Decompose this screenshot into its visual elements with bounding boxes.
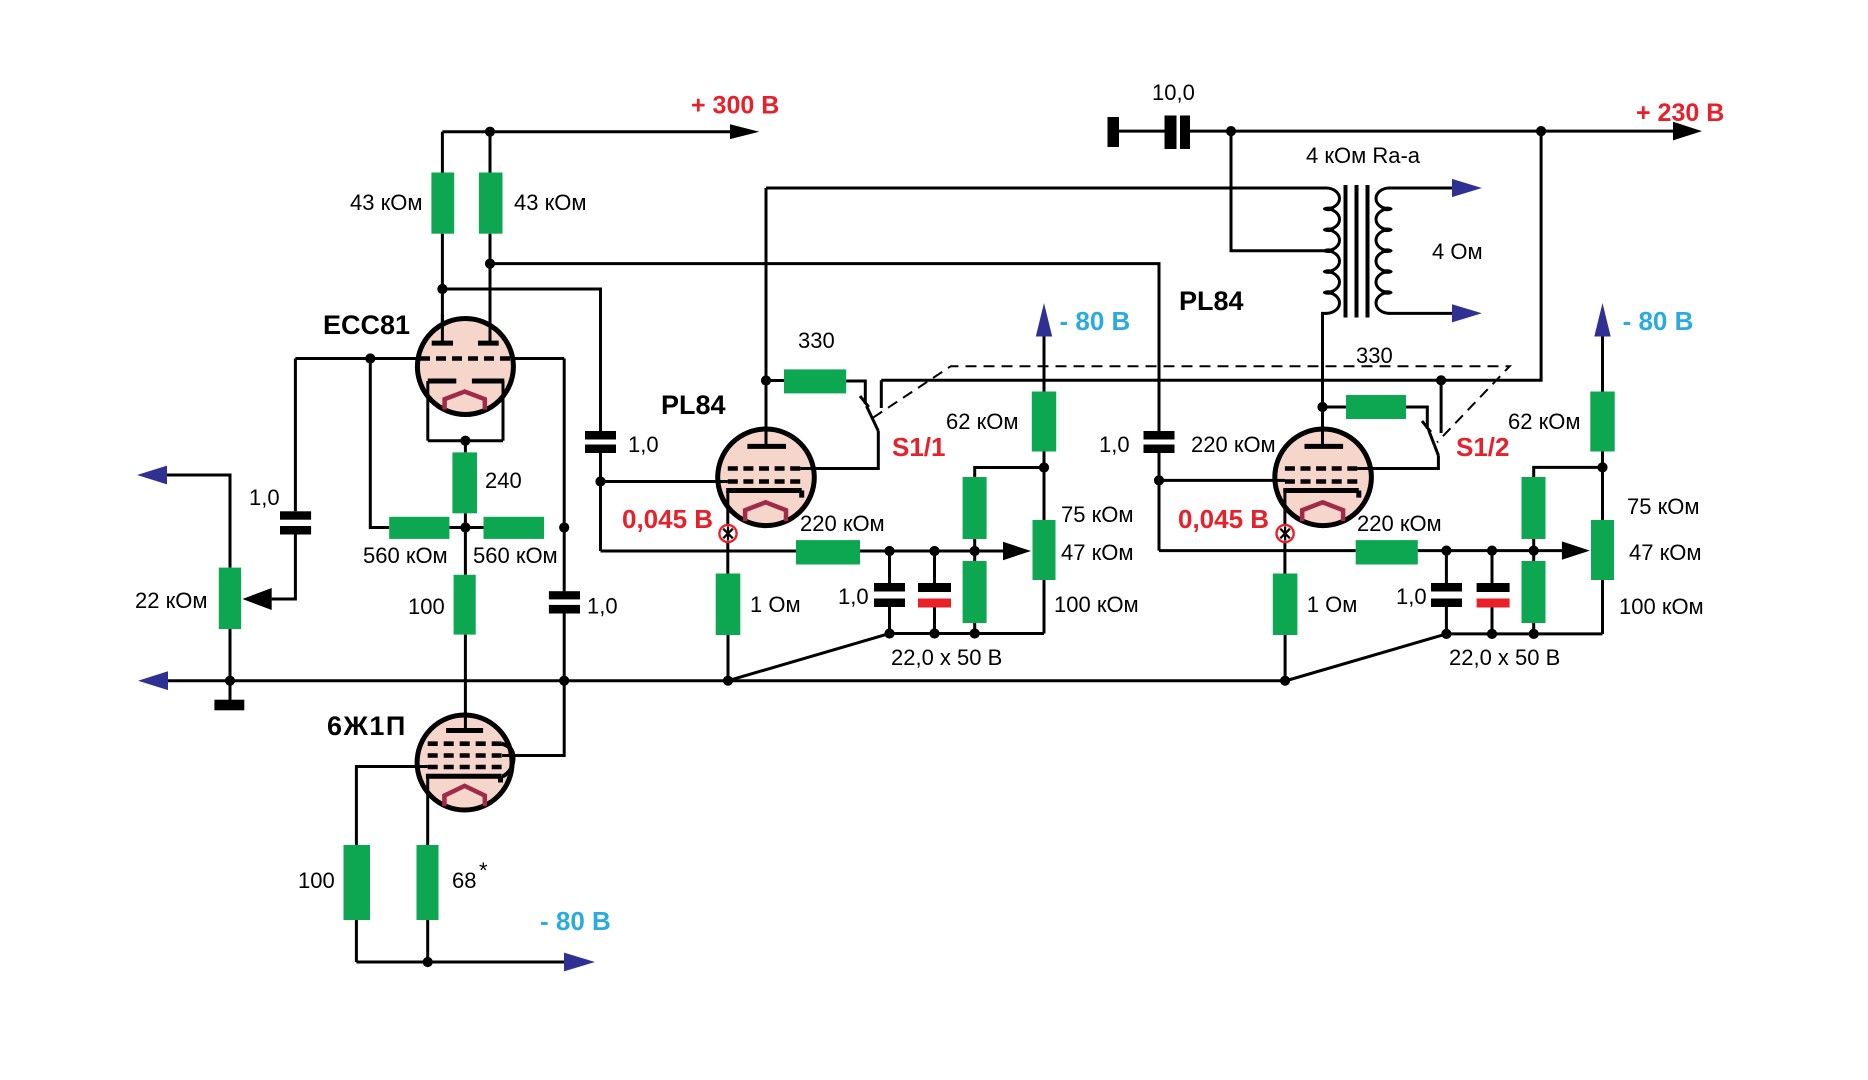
wire -80V bottom rail bbox=[356, 961, 564, 964]
anode plate bar right triode bbox=[478, 341, 499, 346]
wire diagonal bank rail to ground left bbox=[728, 634, 890, 681]
measurement point marker right bbox=[1277, 525, 1294, 542]
wire 68 bottom to -80V rail bbox=[426, 920, 429, 962]
resistor 330 (left) bbox=[784, 369, 846, 393]
node 560k right junction bbox=[559, 522, 569, 532]
capacitor 1,0 (right cathode bank) bbox=[1431, 583, 1462, 592]
transformer secondary winding bbox=[1376, 188, 1390, 313]
svg-text:100: 100 bbox=[408, 594, 445, 619]
node 62k/47k junction left bbox=[1039, 462, 1049, 472]
wire 220k to bias divider bbox=[860, 550, 1004, 553]
transformer primary winding bbox=[1326, 188, 1340, 313]
wire 100 bottom down to 6Ж1П anode (crosses ground rail) bbox=[464, 635, 467, 731]
wire 62k bottom lead left bbox=[1043, 452, 1046, 468]
arrowhead ground rail (left) bbox=[138, 671, 168, 690]
capacitor 1,0 (right coupling) bbox=[1144, 431, 1175, 440]
wire 43k left bottom to ECC81 anode bbox=[441, 234, 444, 345]
resistor 220 кОм (right grid leak) bbox=[1356, 540, 1418, 564]
node bias line / 1,0 cap left bbox=[884, 546, 894, 556]
tube ECC81 envelope bbox=[417, 319, 513, 415]
S1/1 switch blade bbox=[867, 406, 879, 431]
grid dashes control row PL84 left bbox=[728, 479, 800, 484]
capacitor 1,0 (left cathode bank) bbox=[874, 583, 905, 592]
svg-text:4 Ом: 4 Ом bbox=[1432, 239, 1483, 264]
measurement point marker left bbox=[719, 525, 736, 542]
node grid-left feedback tap bbox=[365, 353, 375, 363]
resistor 220 кОм (left grid leak) bbox=[796, 540, 860, 564]
svg-text:1,0: 1,0 bbox=[838, 584, 869, 609]
wire cathode join bar bbox=[428, 439, 503, 442]
node anode / 330 tap right bbox=[1317, 402, 1327, 412]
svg-text:10,0: 10,0 bbox=[1152, 80, 1195, 105]
grid dashes screen row PL84 right bbox=[1285, 466, 1357, 471]
node bias line / 1,0 cap right bbox=[1441, 546, 1451, 556]
capacitor 22,0x50В electrolytic left bbox=[918, 583, 951, 592]
wire main ground rail bbox=[168, 679, 1285, 682]
ground symbol bar bbox=[214, 700, 244, 711]
heater PL84 left bbox=[745, 502, 786, 521]
wire center tap feed bbox=[1231, 131, 1327, 251]
svg-text:62 кОм: 62 кОм bbox=[946, 409, 1018, 434]
wire 330 to S1/2 upper contact bbox=[1406, 407, 1427, 429]
svg-text:1 Ом: 1 Ом bbox=[750, 592, 801, 617]
heater ECC81 bbox=[445, 392, 485, 410]
node on +300V rail bbox=[485, 127, 495, 137]
resistor 1 Ом (right) bbox=[1273, 574, 1298, 636]
wire cathode left lead bbox=[426, 381, 429, 441]
wire PL84 left cathode lead bbox=[726, 491, 729, 574]
node anode left / coupling tap bbox=[437, 284, 447, 294]
resistor 43 кОм (right) bbox=[479, 173, 503, 234]
wire anode lead inside 6Ж1П bbox=[464, 712, 467, 731]
svg-text:+ 230 В: + 230 В bbox=[1636, 99, 1724, 127]
node anode / 330 tap bbox=[761, 375, 771, 385]
capacitor 10,0 terminal bar bbox=[1108, 117, 1120, 147]
wire 100k leads right bbox=[1532, 551, 1535, 634]
wire S1/2 pole to screen grid bbox=[1357, 455, 1438, 468]
arrowhead 47k wiper right bbox=[1562, 541, 1590, 559]
svg-text:1,0: 1,0 bbox=[1396, 584, 1427, 609]
svg-text:1,0: 1,0 bbox=[249, 485, 280, 510]
resistor 62 кОм (right) bbox=[1590, 392, 1614, 452]
wire diagonal bank rail to ground right bbox=[1285, 634, 1446, 681]
wire elko leads left bbox=[933, 551, 936, 634]
wire 62k top to -80V arrow left bbox=[1043, 334, 1046, 392]
resistor 560 кОм (right) bbox=[484, 517, 545, 539]
wire grid lead inside tube right PL84 bbox=[1273, 479, 1285, 482]
node cathodes joined bbox=[460, 436, 470, 446]
wire PL84 right cathode lead bbox=[1283, 491, 1286, 574]
wire cathode right lead bbox=[502, 381, 505, 441]
capacitor 22,0x50В electrolytic right bbox=[1477, 583, 1510, 592]
resistor 75 кОм (left) bbox=[963, 477, 987, 539]
svg-text:PL84: PL84 bbox=[661, 390, 726, 420]
cathode bar right triode bbox=[472, 379, 504, 384]
wire bypass cap to ground rail and 6Ж1П screen bbox=[503, 614, 564, 756]
svg-text:1,0: 1,0 bbox=[628, 432, 659, 457]
capacitor 1,0 (left coupling) bbox=[585, 431, 616, 440]
arrowhead 22k wiper bbox=[243, 588, 272, 610]
potentiometer 47 кОм (right) bbox=[1591, 520, 1614, 580]
tube 6Ж1П envelope bbox=[417, 715, 512, 810]
wire 47k pot leads left bbox=[1043, 468, 1046, 634]
wire cathode lead down to 68 resistor bbox=[426, 776, 429, 845]
wire +300V rail bbox=[442, 130, 732, 133]
svg-text:PL84: PL84 bbox=[1179, 286, 1244, 316]
transformer core bbox=[1346, 185, 1368, 318]
wire bank bottom rail right bbox=[1446, 632, 1602, 635]
wire 330 right lead bbox=[1323, 406, 1347, 409]
resistor 62 кОм (left) bbox=[1032, 392, 1056, 452]
resistor 75 кОм (right) bbox=[1522, 477, 1546, 539]
wire input to 22k top bbox=[167, 475, 230, 568]
wire +230 branch to switch contacts bbox=[881, 131, 1541, 380]
arrowhead 47k wiper left bbox=[1003, 542, 1031, 560]
wire grid left ECC81 bbox=[295, 357, 420, 360]
wire 330 left lead bbox=[766, 379, 784, 382]
resistor 100 (6Ж1П grid) bbox=[344, 845, 371, 920]
wire anode leads inside ECC81 bbox=[442, 314, 490, 344]
wire grid-right column down to bypass cap bbox=[563, 359, 566, 592]
node bias line / elko left bbox=[929, 546, 939, 556]
svg-text:43 кОм: 43 кОм bbox=[514, 190, 586, 215]
svg-text:560 кОм: 560 кОм bbox=[473, 543, 558, 568]
svg-text:220 кОм: 220 кОм bbox=[1191, 432, 1276, 457]
anode plate bar PL84 right bbox=[1305, 444, 1344, 449]
svg-text:- 80 В: - 80 В bbox=[1623, 306, 1694, 336]
svg-text:68: 68 bbox=[452, 868, 476, 893]
cathode bar PL84 left bbox=[726, 488, 802, 493]
wire control grid to left column bbox=[356, 767, 427, 846]
wire elko leads right bbox=[1491, 551, 1494, 634]
wire 10,0 link bbox=[1119, 130, 1165, 133]
arrowhead -80V up left bbox=[1036, 303, 1052, 337]
tube PL84 left envelope bbox=[718, 429, 815, 526]
capacitor 1,0 (input RC) bbox=[280, 511, 311, 519]
svg-text:+ 300 В: + 300 В bbox=[691, 92, 779, 120]
wire 43k right bottom to ECC81 anode bbox=[489, 234, 492, 345]
wire coupling cap to grid node and down to 220k line bbox=[599, 453, 602, 551]
capacitor 10,0 plates bbox=[1165, 116, 1177, 150]
svg-text:4 кОм Ra-a: 4 кОм Ra-a bbox=[1306, 143, 1421, 168]
resistor 330 (right) bbox=[1346, 395, 1406, 419]
svg-text:6Ж1П: 6Ж1П bbox=[327, 711, 407, 741]
svg-text:S1/2: S1/2 bbox=[1456, 432, 1510, 462]
grid dashes screen row PL84 left bbox=[728, 466, 800, 471]
wire anode-right to right PL84 coupling bbox=[490, 264, 1159, 431]
heater 6Ж1П bbox=[444, 786, 484, 806]
arrowhead secondary top bbox=[1452, 179, 1482, 197]
wire screen lead inside 6Ж1П bbox=[502, 754, 516, 757]
resistor 100 (ECC81 cathode branch) bbox=[454, 575, 476, 635]
cathode bar 6Ж1П bbox=[426, 774, 502, 779]
node 62k/47k junction right bbox=[1597, 462, 1607, 472]
wire secondary top lead bbox=[1389, 187, 1455, 190]
cathode bar left triode bbox=[428, 379, 457, 384]
arrowhead +230V bbox=[1673, 122, 1702, 141]
wire primary bottom lead to right PL84 anode bbox=[1323, 313, 1328, 407]
node cathode/ground rail right bbox=[1280, 676, 1290, 686]
svg-text:560 кОм: 560 кОм bbox=[363, 543, 448, 568]
svg-text:S1/1: S1/1 bbox=[892, 432, 946, 462]
svg-text:ECC81: ECC81 bbox=[323, 310, 410, 340]
resistor 1 Ом (left) bbox=[716, 574, 741, 636]
cathode right tick bbox=[498, 776, 503, 782]
wire right PL84 anode lead bbox=[1321, 407, 1324, 446]
wire 75k leads left bbox=[975, 468, 1044, 552]
wire S1/2 right contact bbox=[1440, 380, 1443, 433]
anode plate bar left triode bbox=[432, 341, 453, 346]
svg-text:22,0 x 50 В: 22,0 x 50 В bbox=[1449, 645, 1560, 670]
grid dashes ECC81 bbox=[420, 356, 510, 361]
svg-text:1 Ом: 1 Ом bbox=[1307, 592, 1358, 617]
svg-text:43 кОм: 43 кОм bbox=[350, 190, 422, 215]
arrowhead -80V up right bbox=[1594, 303, 1610, 337]
wire 75k leads right bbox=[1534, 467, 1603, 550]
svg-text:47 кОм: 47 кОм bbox=[1629, 540, 1701, 565]
wire bank bottom rail left bbox=[890, 632, 1045, 635]
wire grid right ECC81 bbox=[511, 357, 564, 360]
arrowhead -80V bottom bbox=[564, 953, 595, 972]
wire 47k pot leads right bbox=[1601, 467, 1604, 634]
wire +230V rail bbox=[1190, 130, 1675, 133]
svg-text:*: * bbox=[479, 858, 488, 883]
wire 22k bottom to ground rail bbox=[229, 629, 232, 681]
tube PL84 right envelope bbox=[1275, 429, 1372, 526]
resistor 560 кОм (left) bbox=[389, 517, 449, 539]
node bias line / elko right bbox=[1487, 546, 1497, 556]
wire secondary bottom lead bbox=[1389, 312, 1455, 315]
wire 43k left top lead bbox=[441, 132, 444, 173]
resistor 43 кОм (left) bbox=[431, 173, 454, 234]
svg-text:100 кОм: 100 кОм bbox=[1054, 592, 1139, 617]
svg-text:100: 100 bbox=[298, 868, 335, 893]
node cathode/ground rail left bbox=[723, 676, 733, 686]
node 68 on -80V rail bbox=[423, 957, 433, 967]
S1/2 switch blade bbox=[1429, 430, 1439, 455]
wire left PL84 anode lead up to transformer line bbox=[765, 188, 768, 446]
wire 1 Ом bottom to ground rail right bbox=[1284, 635, 1287, 681]
wire 1,0 cap leads right bbox=[1445, 551, 1448, 634]
node left PL84 grid bbox=[595, 476, 605, 486]
node 240/560k junction bbox=[460, 522, 470, 532]
svg-text:240: 240 bbox=[485, 468, 522, 493]
resistor 68 (6Ж1П cathode) bbox=[417, 845, 439, 920]
wire 62k bottom lead right bbox=[1601, 452, 1604, 468]
wire 43k right top lead bbox=[489, 132, 492, 173]
resistor 240 bbox=[452, 452, 477, 513]
dashed switch linkage bbox=[873, 366, 1510, 442]
grid dashes row2 (screen) bbox=[428, 753, 502, 758]
resistor 100 кОм (right) bbox=[1522, 561, 1546, 623]
wire S1/1 right contact bbox=[880, 380, 883, 408]
wire 1 Ом bottom to ground rail bbox=[727, 635, 730, 681]
node right PL84 grid bbox=[1154, 475, 1164, 485]
node +230 / switch branch bbox=[1536, 126, 1546, 136]
node bank rail caps right bbox=[1441, 629, 1451, 639]
wire coupling cap to grid node right bbox=[1158, 453, 1161, 551]
svg-text:0,045 В: 0,045 В bbox=[622, 504, 713, 534]
cathode bar PL84 right bbox=[1283, 488, 1359, 493]
cathode right tick PL84 right bbox=[1356, 491, 1361, 498]
wire 220k to bias divider right bbox=[1418, 549, 1562, 552]
svg-text:1,0: 1,0 bbox=[1099, 432, 1130, 457]
svg-text:22 кОм: 22 кОм bbox=[135, 588, 207, 613]
wire grid node to tube right bbox=[1159, 479, 1285, 482]
wire ECC81 grid-left column down to 1,0 cap bbox=[294, 359, 297, 512]
wire 220k grid-leak line right bbox=[1159, 549, 1356, 552]
svg-text:330: 330 bbox=[1356, 343, 1393, 368]
potentiometer 47 кОм (left) bbox=[1033, 520, 1056, 580]
svg-text:62 кОм: 62 кОм bbox=[1508, 409, 1580, 434]
wire anode-left to left PL84 coupling bbox=[442, 289, 600, 431]
S1/2 contact hook bbox=[1422, 421, 1431, 432]
svg-text:75 кОм: 75 кОм bbox=[1061, 502, 1133, 527]
node bypass/ground rail bbox=[559, 676, 569, 686]
wire 62k top to -80V arrow right bbox=[1601, 334, 1604, 392]
cathode right tick PL84 left bbox=[799, 491, 804, 498]
grid dashes row1 (suppressor) bbox=[428, 741, 502, 746]
wire primary top lead from left PL84 anode bbox=[766, 187, 1327, 190]
capacitor 1,0 (ECC81 right-grid bypass) bbox=[549, 591, 580, 599]
wire grid node to tube bbox=[601, 480, 729, 483]
svg-text:75 кОм: 75 кОм bbox=[1627, 494, 1699, 519]
grid dashes row3 (control) bbox=[428, 765, 502, 770]
wire 330 to S1/1 upper contact bbox=[846, 381, 865, 404]
node bias line / 100k left bbox=[970, 546, 980, 556]
svg-text:22,0 x 50 В: 22,0 x 50 В bbox=[891, 645, 1002, 670]
wire grid lead inside tube left PL84 bbox=[716, 480, 728, 483]
wire 1,0 cap down to wiper line bbox=[272, 535, 296, 600]
wire grid-left tap down to 560k left bbox=[370, 359, 389, 528]
node bank rail caps left bbox=[884, 628, 894, 638]
anode plate bar PL84 left bbox=[747, 444, 786, 449]
wire 240 bottom to 560k junction bbox=[464, 513, 467, 527]
node anode right / coupling tap bbox=[485, 259, 495, 269]
heater PL84 right bbox=[1302, 502, 1343, 521]
resistor 100 кОм (left) bbox=[963, 561, 987, 623]
arrowhead +300V bbox=[730, 124, 759, 139]
svg-text:100 кОм: 100 кОм bbox=[1619, 594, 1704, 619]
anode plate bar 6Ж1П bbox=[446, 728, 483, 733]
node S1/2 contact branch bbox=[1436, 375, 1446, 385]
svg-text:- 80 В: - 80 В bbox=[540, 906, 611, 936]
S1/1 contact hook bbox=[860, 396, 869, 407]
svg-text:220 кОм: 220 кОм bbox=[800, 511, 885, 536]
node bias line / 100k right bbox=[1529, 546, 1539, 556]
svg-text:220 кОм: 220 кОм bbox=[1357, 511, 1442, 536]
svg-text:- 80 В: - 80 В bbox=[1060, 306, 1131, 336]
svg-text:1,0: 1,0 bbox=[587, 594, 618, 619]
svg-text:47 кОм: 47 кОм bbox=[1061, 540, 1133, 565]
wire S1/1 pole to screen grid bbox=[800, 431, 878, 469]
arrowhead input (left) bbox=[137, 466, 167, 485]
node +230 / center tap bbox=[1226, 126, 1236, 136]
wire 1,0 cap leads left bbox=[888, 551, 891, 634]
wire 220k grid-leak line left bbox=[601, 550, 797, 553]
wire junction down to 100 resistor bbox=[464, 528, 467, 575]
arrowhead secondary bottom bbox=[1452, 304, 1482, 322]
wire 100k leads left bbox=[973, 551, 976, 634]
potentiometer 22 кОм bbox=[219, 568, 241, 629]
ground symbol stub bbox=[229, 681, 232, 700]
svg-text:330: 330 bbox=[798, 328, 835, 353]
svg-text:0,045 В: 0,045 В bbox=[1178, 504, 1269, 534]
wire 100 bottom to -80V rail bbox=[355, 920, 358, 962]
wire between 560k resistors bbox=[449, 526, 483, 529]
wire cathode node to 240 resistor bbox=[464, 441, 467, 453]
grid dashes control row PL84 right bbox=[1285, 479, 1357, 484]
node 22k/ground rail bbox=[225, 676, 235, 686]
suppressor-to-cathode curve bbox=[502, 744, 514, 777]
